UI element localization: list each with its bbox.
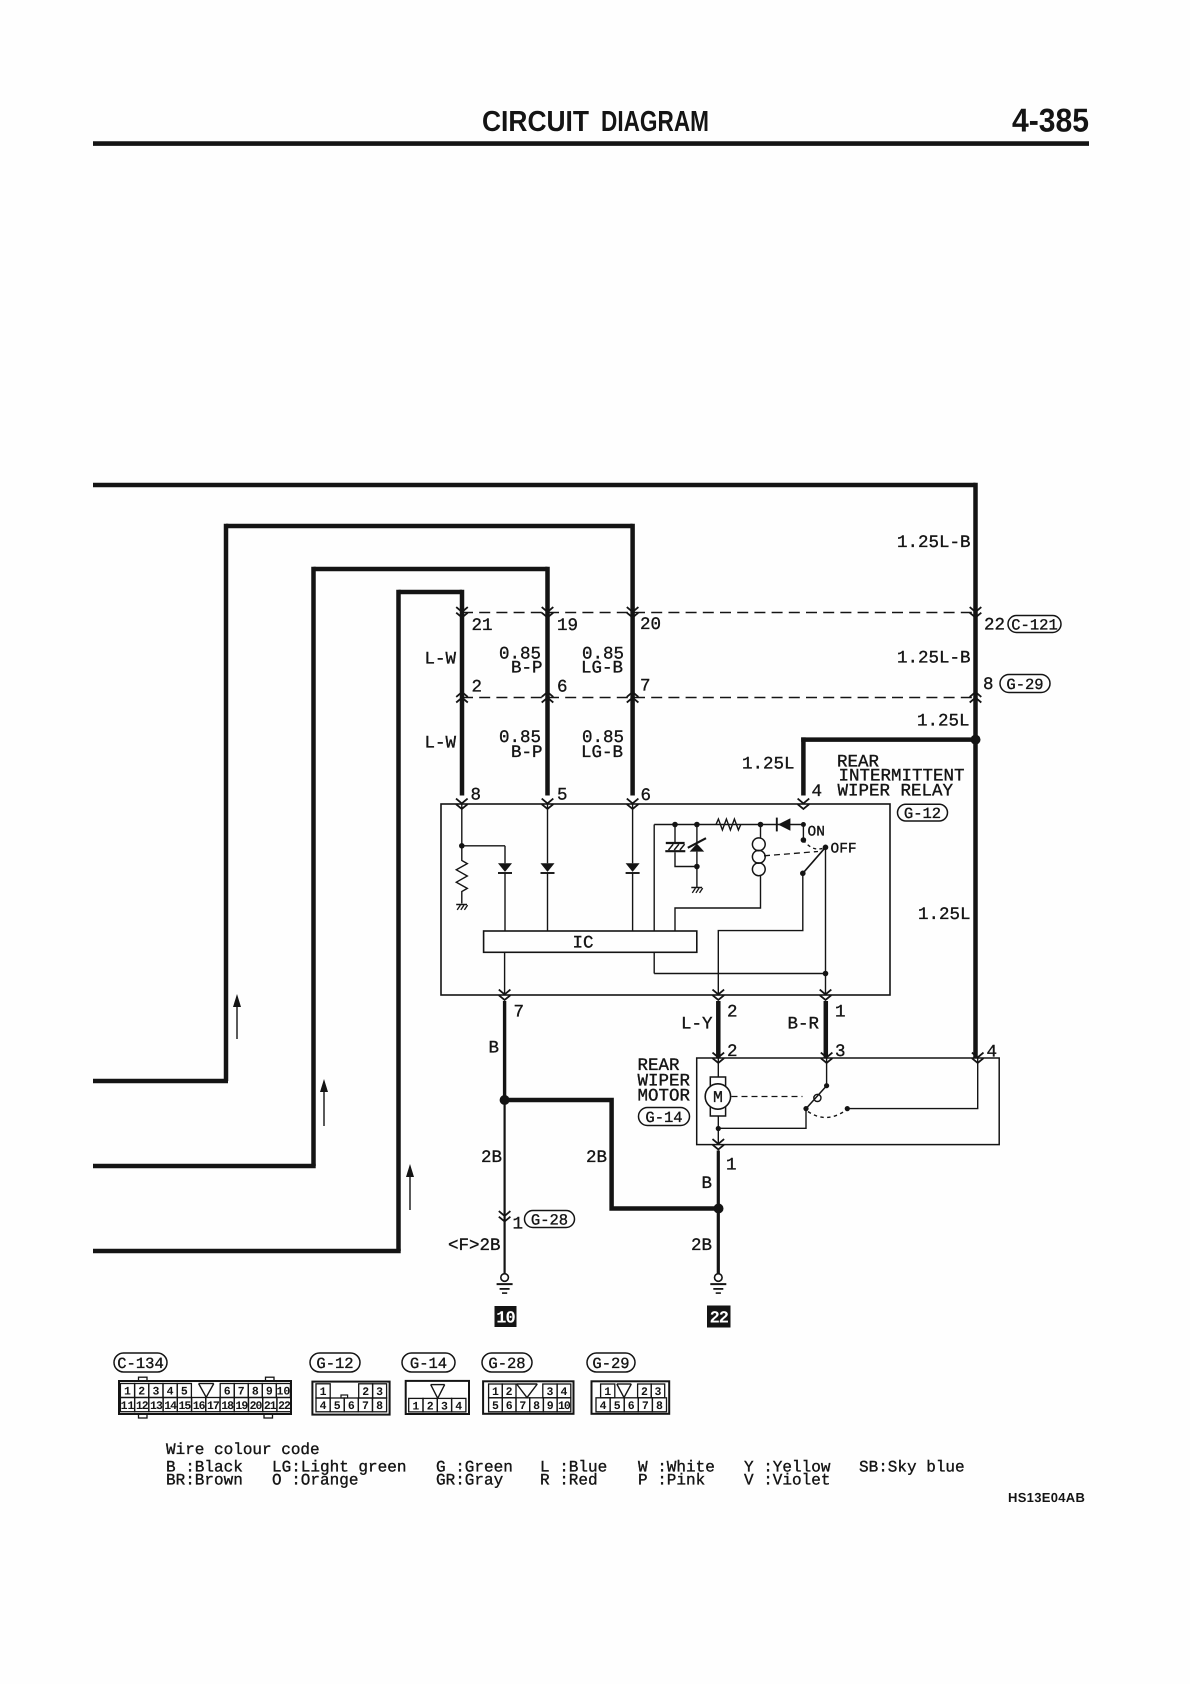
motor M body rectangle (710, 1077, 725, 1116)
junction dot 2B left (500, 1095, 510, 1105)
svg-text:21: 21 (472, 616, 493, 636)
capacitor C1 lower lead to node (675, 852, 697, 866)
svg-text:SB:Sky blue: SB:Sky blue (859, 1459, 965, 1477)
svg-text:10: 10 (558, 1400, 571, 1413)
wire pivot to relay pin 1 (825, 847, 827, 995)
motor park switch pin3 contact (824, 1083, 829, 1088)
wire OFF contact to relay pin 2 (718, 873, 803, 995)
G-14 cells 1-4 (409, 1398, 423, 1412)
svg-text:2: 2 (727, 1042, 738, 1062)
G-12 cells 2-3 (359, 1384, 373, 1398)
svg-text:6: 6 (348, 1400, 355, 1413)
svg-text:LG-B: LG-B (581, 659, 623, 679)
wire motor pin1 ground lead (717, 1151, 720, 1274)
relay pin 1 exit chevrons (820, 990, 832, 995)
relay connector label G-12 (898, 804, 948, 821)
svg-text:<F>2B: <F>2B (448, 1236, 501, 1256)
svg-text:19: 19 (557, 616, 578, 636)
svg-text:2: 2 (472, 678, 483, 698)
svg-text:GR:Gray: GR:Gray (436, 1472, 504, 1490)
wire thick 2B jog to motor ground (505, 1100, 719, 1209)
svg-text:4: 4 (455, 1400, 462, 1413)
connector C-121 chevrons wire 22 (970, 607, 982, 612)
svg-text:LG-B: LG-B (581, 743, 623, 763)
ground symbol below resistor R1 (456, 904, 467, 906)
wire harness B bottom horizontal from left edge (93, 1079, 228, 1084)
connector label C-121 (1008, 616, 1061, 633)
svg-text:4: 4 (320, 1400, 327, 1413)
switch S1 moving arm (803, 847, 826, 873)
connector G-29 chevrons wire 7 (627, 698, 639, 703)
G-28 cells 5-10 (489, 1398, 503, 1412)
svg-text:IC: IC (573, 934, 594, 954)
svg-text:17: 17 (207, 1400, 220, 1413)
wire harness B top horizontal (226, 524, 633, 529)
diode D4 triangle pointing left (778, 818, 790, 831)
diode D2 (541, 863, 555, 872)
connector label G-12 bottom (310, 1353, 360, 1372)
svg-text:7: 7 (642, 1400, 649, 1413)
wire to ground 10 (504, 1100, 506, 1274)
svg-text:6: 6 (641, 786, 652, 806)
svg-text:G-14: G-14 (410, 1355, 447, 1373)
capacitor C1 upper lead (674, 825, 676, 843)
connector label G-28 (525, 1211, 575, 1228)
C-134 cells 1-5 (120, 1384, 134, 1398)
svg-text:8: 8 (533, 1400, 540, 1413)
svg-text:P :Pink: P :Pink (638, 1472, 705, 1490)
svg-text:10: 10 (276, 1386, 290, 1399)
svg-text:22: 22 (278, 1400, 291, 1413)
svg-text:OFF: OFF (831, 842, 857, 858)
connector G-29 chevrons wire 8 (970, 698, 982, 703)
svg-text:L-Y: L-Y (681, 1015, 713, 1035)
diode D3 (626, 863, 640, 872)
wire battery feed top horizontal 1.25L-B (93, 483, 976, 488)
svg-text:21: 21 (264, 1400, 277, 1413)
connector C-134 pinout (119, 1381, 291, 1414)
wire diode D3 to IC (632, 874, 634, 932)
switch S1 pivot (823, 845, 829, 851)
svg-text:22: 22 (710, 1310, 729, 1329)
svg-text:WIPER RELAY: WIPER RELAY (838, 782, 954, 802)
motor park switch dashed arc (808, 1111, 846, 1118)
motor lower lead (717, 1116, 719, 1145)
connector label G-14 bottom (402, 1353, 455, 1372)
svg-text:1: 1 (320, 1386, 327, 1399)
connector label G-29 bottom (587, 1353, 635, 1372)
ground label 10 (495, 1306, 517, 1327)
node capacitor C1 tap (672, 822, 678, 828)
svg-text:1: 1 (124, 1386, 131, 1399)
svg-text:R :Red: R :Red (540, 1472, 598, 1490)
relay pin 5 internal lead (547, 804, 549, 863)
svg-text:M: M (713, 1088, 723, 1107)
svg-text:Wire colour code: Wire colour code (166, 1441, 320, 1459)
svg-text:DIAGRAM: DIAGRAM (601, 106, 709, 138)
ground symbol below zener (691, 887, 702, 889)
relay pin 8 entry chevrons (456, 799, 468, 804)
svg-text:3: 3 (152, 1386, 159, 1399)
connector C-121 chevrons wire 21 (456, 607, 468, 612)
relay pin 6 internal lead (632, 804, 634, 863)
motor pin 3 entry chevrons (821, 1053, 833, 1058)
svg-text:7: 7 (362, 1400, 369, 1413)
node pin8 branch (459, 843, 465, 849)
node bottom rail pin 1 (823, 971, 829, 977)
connector G-14 pinout (406, 1381, 469, 1414)
junction dot 2B right (714, 1204, 724, 1214)
svg-text:B-R: B-R (788, 1015, 820, 1035)
svg-text:5: 5 (181, 1386, 188, 1399)
svg-text:5: 5 (557, 786, 568, 806)
svg-text:ON: ON (808, 825, 825, 841)
motor pin 2 internal lead (717, 1058, 719, 1077)
relay pin 4 internal lead to ON contact (802, 825, 804, 841)
svg-text:19: 19 (235, 1400, 248, 1413)
connector label G-29 (1000, 675, 1050, 693)
connector label G-28 bottom (482, 1353, 532, 1372)
svg-text:7: 7 (238, 1386, 245, 1399)
svg-text:5: 5 (614, 1400, 621, 1413)
coil L1 windings (752, 838, 765, 851)
svg-text:CIRCUIT: CIRCUIT (482, 106, 589, 138)
rear wiper motor G-14 box outline (697, 1058, 1000, 1145)
wire relay pin7 ground lead B (503, 1001, 506, 1100)
wire top rail drop to IC left (653, 825, 655, 932)
oscillator top rail (654, 824, 803, 826)
svg-text:3: 3 (835, 1042, 846, 1062)
node rail to pin4 line (801, 822, 806, 827)
node motor return (716, 1126, 721, 1131)
wire harness C drop to relay pin 5 (0.85 B-P) (545, 567, 550, 796)
svg-text:1.25L: 1.25L (918, 905, 971, 925)
node zener-capacitor junction (694, 864, 700, 870)
svg-text:2B: 2B (691, 1236, 712, 1256)
G-28 keyway (517, 1384, 538, 1398)
svg-text:5: 5 (492, 1400, 499, 1413)
svg-text:B: B (489, 1039, 500, 1059)
svg-text:G-12: G-12 (904, 805, 941, 823)
wire harness D bottom horizontal from left edge (93, 1249, 401, 1254)
wire branch node to diode D1 (462, 845, 505, 847)
svg-text:3: 3 (376, 1386, 383, 1399)
svg-text:7: 7 (519, 1400, 526, 1413)
svg-text:20: 20 (640, 615, 661, 635)
resistor R1 vertical zigzag (456, 846, 467, 904)
wire harness B left vertical (224, 524, 229, 1081)
relay pin 6 entry chevrons (627, 799, 639, 804)
svg-text:18: 18 (221, 1400, 234, 1413)
relay G-12 box outline (441, 804, 890, 995)
svg-text:G-28: G-28 (488, 1355, 525, 1373)
ground label 22 (707, 1306, 731, 1328)
svg-text:1: 1 (726, 1156, 737, 1176)
svg-text:G-28: G-28 (531, 1211, 568, 1229)
connector row G-29 dashed line (462, 697, 976, 699)
motor M circle (705, 1084, 730, 1109)
motor pin 2 entry chevrons (713, 1053, 725, 1058)
motor connector label G-14 (639, 1108, 690, 1126)
svg-text:8: 8 (252, 1386, 259, 1399)
C-134 cells 11-22 (120, 1398, 134, 1412)
svg-text:MOTOR: MOTOR (638, 1087, 691, 1107)
svg-text:2B: 2B (481, 1148, 502, 1168)
svg-text:G-29: G-29 (592, 1355, 629, 1373)
svg-text:B-P: B-P (511, 659, 543, 679)
svg-text:13: 13 (150, 1400, 163, 1413)
relay pin 2 exit chevrons (713, 990, 725, 995)
switch S1 arm end contact (800, 871, 806, 877)
svg-text:11: 11 (121, 1400, 135, 1413)
connector C-121 chevrons wire 20 (627, 607, 639, 612)
wire harness C left vertical (311, 567, 316, 1166)
wire harness C top horizontal (314, 567, 548, 572)
svg-text:1.25L: 1.25L (917, 712, 970, 732)
svg-text:6: 6 (224, 1386, 231, 1399)
svg-text:4: 4 (987, 1043, 998, 1063)
wire IC bottom to bottom rail (653, 952, 655, 973)
C-134 keyway (199, 1384, 214, 1398)
flow arrow on harness C (323, 1084, 325, 1126)
wire diode D2 to IC (547, 874, 549, 932)
svg-text:2: 2 (362, 1386, 369, 1399)
wire harness D left vertical (396, 590, 401, 1251)
G-14 keyway (431, 1385, 445, 1399)
relay pin 7 exit chevrons (499, 990, 511, 995)
flow arrow on harness B (236, 999, 238, 1039)
svg-text:2: 2 (427, 1400, 434, 1413)
wire 1.25L horizontal to relay pin 4 (801, 737, 975, 742)
ground symbol 10 (501, 1274, 509, 1282)
zener lower lead to ground (696, 852, 698, 887)
svg-text:G-14: G-14 (645, 1109, 682, 1127)
svg-text:1: 1 (412, 1400, 419, 1413)
svg-text:HS13E04AB: HS13E04AB (1008, 1490, 1085, 1505)
G-12 cells 4-8 (316, 1398, 330, 1412)
svg-text:2B: 2B (586, 1148, 607, 1168)
svg-text:7: 7 (640, 677, 651, 697)
wire diode D1 to IC (504, 874, 506, 932)
wire harness B drop to relay pin 6 (0.85 LG-B) (630, 524, 635, 796)
svg-text:1.25L: 1.25L (742, 755, 795, 775)
svg-text:8: 8 (983, 675, 994, 695)
connector label C-134 (114, 1353, 167, 1372)
motor park switch arm loop (814, 1094, 821, 1101)
wire harness C bottom horizontal from left edge (93, 1164, 316, 1169)
svg-text:7: 7 (514, 1003, 525, 1023)
diode D4 cathode bar (776, 818, 778, 832)
svg-text:1.25L-B: 1.25L-B (897, 533, 971, 553)
connector G-29 chevrons wire 6 (542, 698, 554, 703)
svg-text:6: 6 (628, 1400, 635, 1413)
svg-text:1: 1 (835, 1003, 846, 1023)
zener diode ZD1 upper lead (696, 825, 698, 844)
wire relay pin2 to motor pin2 L-Y (716, 1001, 721, 1058)
wire harness D drop to relay pin 8 (L-W) (460, 590, 465, 796)
wire park switch to motor return (718, 1109, 806, 1129)
svg-text:L-W: L-W (425, 650, 457, 670)
C-134 mounting tabs (139, 1377, 148, 1381)
svg-text:22: 22 (984, 616, 1005, 636)
svg-text:L-W: L-W (425, 734, 457, 754)
zener diode ZD1 diagonal cathode bar (688, 838, 706, 848)
switch S1 dashed throw arc (803, 840, 825, 849)
G-29 cells 4-8 (596, 1398, 610, 1412)
node zener ZD1 tap (694, 822, 700, 828)
motor pin 3 internal lead (826, 1058, 828, 1086)
switch S1 ON contact (801, 837, 807, 843)
node coil L1 tap (758, 822, 764, 828)
relay bottom rail to pin 1 (654, 973, 825, 975)
connector G-12 pinout (312, 1382, 389, 1415)
svg-text:G-29: G-29 (1006, 676, 1043, 694)
svg-text:16: 16 (193, 1400, 206, 1413)
motor to switch dashed linkage (732, 1096, 803, 1098)
relay pin 5 entry chevrons (542, 799, 554, 804)
motor pin 1 exit chevrons (713, 1139, 725, 1144)
svg-text:8: 8 (376, 1400, 383, 1413)
svg-text:B: B (702, 1174, 713, 1194)
relay pin 8 internal lead (461, 804, 463, 846)
svg-text:2: 2 (138, 1386, 145, 1399)
svg-text:V :Violet: V :Violet (744, 1472, 830, 1490)
capacitor C1 hatched plates (666, 842, 685, 844)
motor park switch arm end (803, 1106, 808, 1111)
flow arrow on harness D (409, 1169, 411, 1210)
coil L1 lower lead to IC (675, 875, 761, 931)
svg-text:1.25L-B: 1.25L-B (897, 649, 971, 669)
connector G-29 chevrons wire 2 (456, 698, 468, 703)
svg-text:2: 2 (727, 1003, 738, 1023)
motor park switch arm (806, 1086, 827, 1109)
svg-text:C-134: C-134 (117, 1355, 164, 1373)
wire relay pin1 to motor pin3 B-R (824, 1001, 829, 1058)
wire IC to relay pin 7 (504, 952, 506, 995)
svg-text:20: 20 (250, 1400, 263, 1413)
connector C-121 chevrons wire 19 (542, 607, 554, 612)
motor park contact to pin 4 (845, 1106, 850, 1111)
svg-text:4: 4 (812, 782, 823, 802)
svg-text:9: 9 (547, 1400, 554, 1413)
G-29 keyway (617, 1384, 632, 1398)
connector G-28 pinout (483, 1381, 573, 1414)
connector row C-121 dashed line (462, 612, 976, 614)
resistor R2 horizontal zigzag on rail (716, 819, 741, 830)
svg-text:3: 3 (441, 1400, 448, 1413)
svg-text:9: 9 (266, 1386, 273, 1399)
svg-text:12: 12 (136, 1400, 149, 1413)
svg-text:B-P: B-P (511, 743, 543, 763)
connector G-29 pinout (592, 1381, 670, 1414)
svg-text:14: 14 (164, 1400, 177, 1413)
svg-text:4-385: 4-385 (1012, 102, 1089, 139)
relay pin 4 entry chevrons (798, 799, 810, 804)
svg-text:8: 8 (471, 786, 482, 806)
connector G-28 chevrons (499, 1211, 511, 1216)
svg-text:4: 4 (167, 1386, 174, 1399)
diode D1 (498, 863, 512, 872)
svg-text:G-12: G-12 (316, 1355, 353, 1373)
svg-text:4: 4 (600, 1400, 607, 1413)
svg-text:6: 6 (506, 1400, 513, 1413)
svg-text:6: 6 (557, 678, 568, 698)
svg-text:BR:Brown: BR:Brown (166, 1472, 243, 1490)
svg-text:5: 5 (334, 1400, 341, 1413)
coil L1 upper lead (760, 825, 762, 839)
wire harness D top horizontal (399, 590, 463, 595)
svg-text:15: 15 (179, 1400, 192, 1413)
wire battery feed right vertical (973, 483, 978, 1058)
svg-text:O :Orange: O :Orange (272, 1472, 358, 1490)
junction dot 1.25L (971, 735, 981, 745)
zener diode ZD1 triangle (690, 844, 705, 852)
ground symbol 22 (715, 1274, 723, 1282)
G-12 keyway notch (341, 1395, 348, 1398)
IC box (484, 931, 697, 952)
svg-text:1: 1 (513, 1215, 524, 1235)
header rule (93, 141, 1089, 146)
C-134 cells 6-10 (220, 1384, 234, 1398)
wire 1.25L vertical drop to relay pin 4 (801, 737, 806, 795)
svg-text:8: 8 (656, 1400, 663, 1413)
coil to switch dashed linkage (764, 852, 818, 856)
svg-text:10: 10 (496, 1310, 515, 1329)
svg-text:C-121: C-121 (1011, 616, 1058, 634)
motor pin 4 entry chevrons (972, 1053, 984, 1058)
